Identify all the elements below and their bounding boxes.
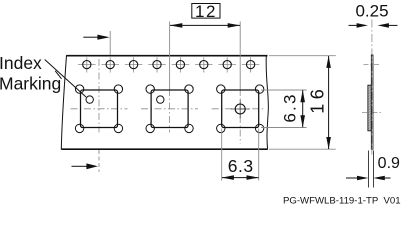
- sprocket hole 1: [78, 57, 96, 72]
- carrier tape torn right edge: [266, 55, 268, 149]
- pocket P2 outline: [146, 85, 193, 133]
- pocket P1 centerlines: [71, 59, 128, 172]
- svg-text:12: 12: [195, 2, 217, 21]
- svg-text:PG-WFWLB-119-1-TP: PG-WFWLB-119-1-TP: [283, 195, 378, 206]
- pocket P3 centerlines: [212, 89, 265, 144]
- pocket P2 index marking circle: [157, 96, 164, 103]
- svg-text:Index: Index: [0, 53, 42, 73]
- side view sprocket row center mark: [364, 64, 381, 66]
- svg-text:16: 16: [308, 85, 328, 114]
- carrier tape torn left edge: [61, 55, 66, 149]
- svg-text:0.25: 0.25: [355, 2, 388, 21]
- carrier tape bottom edge: [62, 148, 268, 150]
- dimension 6.3 pocket length (right, vertical): [261, 90, 307, 128]
- side view tape film: [371, 55, 373, 149]
- svg-text:V01: V01: [384, 195, 401, 206]
- svg-text:6.3: 6.3: [228, 156, 254, 176]
- sprocket hole 5: [172, 57, 190, 72]
- svg-text:6.3: 6.3: [280, 92, 299, 122]
- svg-text:Marking: Marking: [0, 73, 61, 93]
- dimension 0.25 tape thickness: [349, 2, 398, 28]
- dimension 6.3 pocket width (bottom): [222, 129, 259, 181]
- svg-text:0.9: 0.9: [378, 155, 400, 172]
- feed arrow at pocket P1 centerline: [72, 163, 98, 169]
- dimension 16 tape width: [269, 56, 336, 150]
- torn edge stroke: [55, 71, 61, 79]
- side view pocket center mark: [362, 111, 382, 113]
- sprocket hole 6: [195, 57, 213, 72]
- dimension 0.9 pocket depth: [346, 151, 400, 188]
- pocket P1 outline: [75, 85, 122, 133]
- pocket P3 outline: [217, 85, 264, 133]
- sprocket hole 2: [101, 57, 119, 72]
- pocket P2 centerlines: [141, 89, 198, 133]
- sprocket hole 8: [242, 57, 260, 72]
- pocket P1 index marking circle: [86, 96, 93, 103]
- dimension 12 pocket pitch: [170, 2, 241, 89]
- feed arrow at sprocket hole 2: [83, 31, 110, 55]
- side view centerline: [371, 20, 373, 155]
- carrier tape top edge: [67, 55, 268, 57]
- leader line: [45, 60, 86, 98]
- side view pocket bulge hatched: [368, 85, 371, 131]
- sprocket hole 7: [218, 57, 236, 72]
- sprocket hole 4: [148, 57, 166, 72]
- sprocket hole 3: [125, 57, 143, 72]
- pocket P3 center hole: [231, 100, 250, 119]
